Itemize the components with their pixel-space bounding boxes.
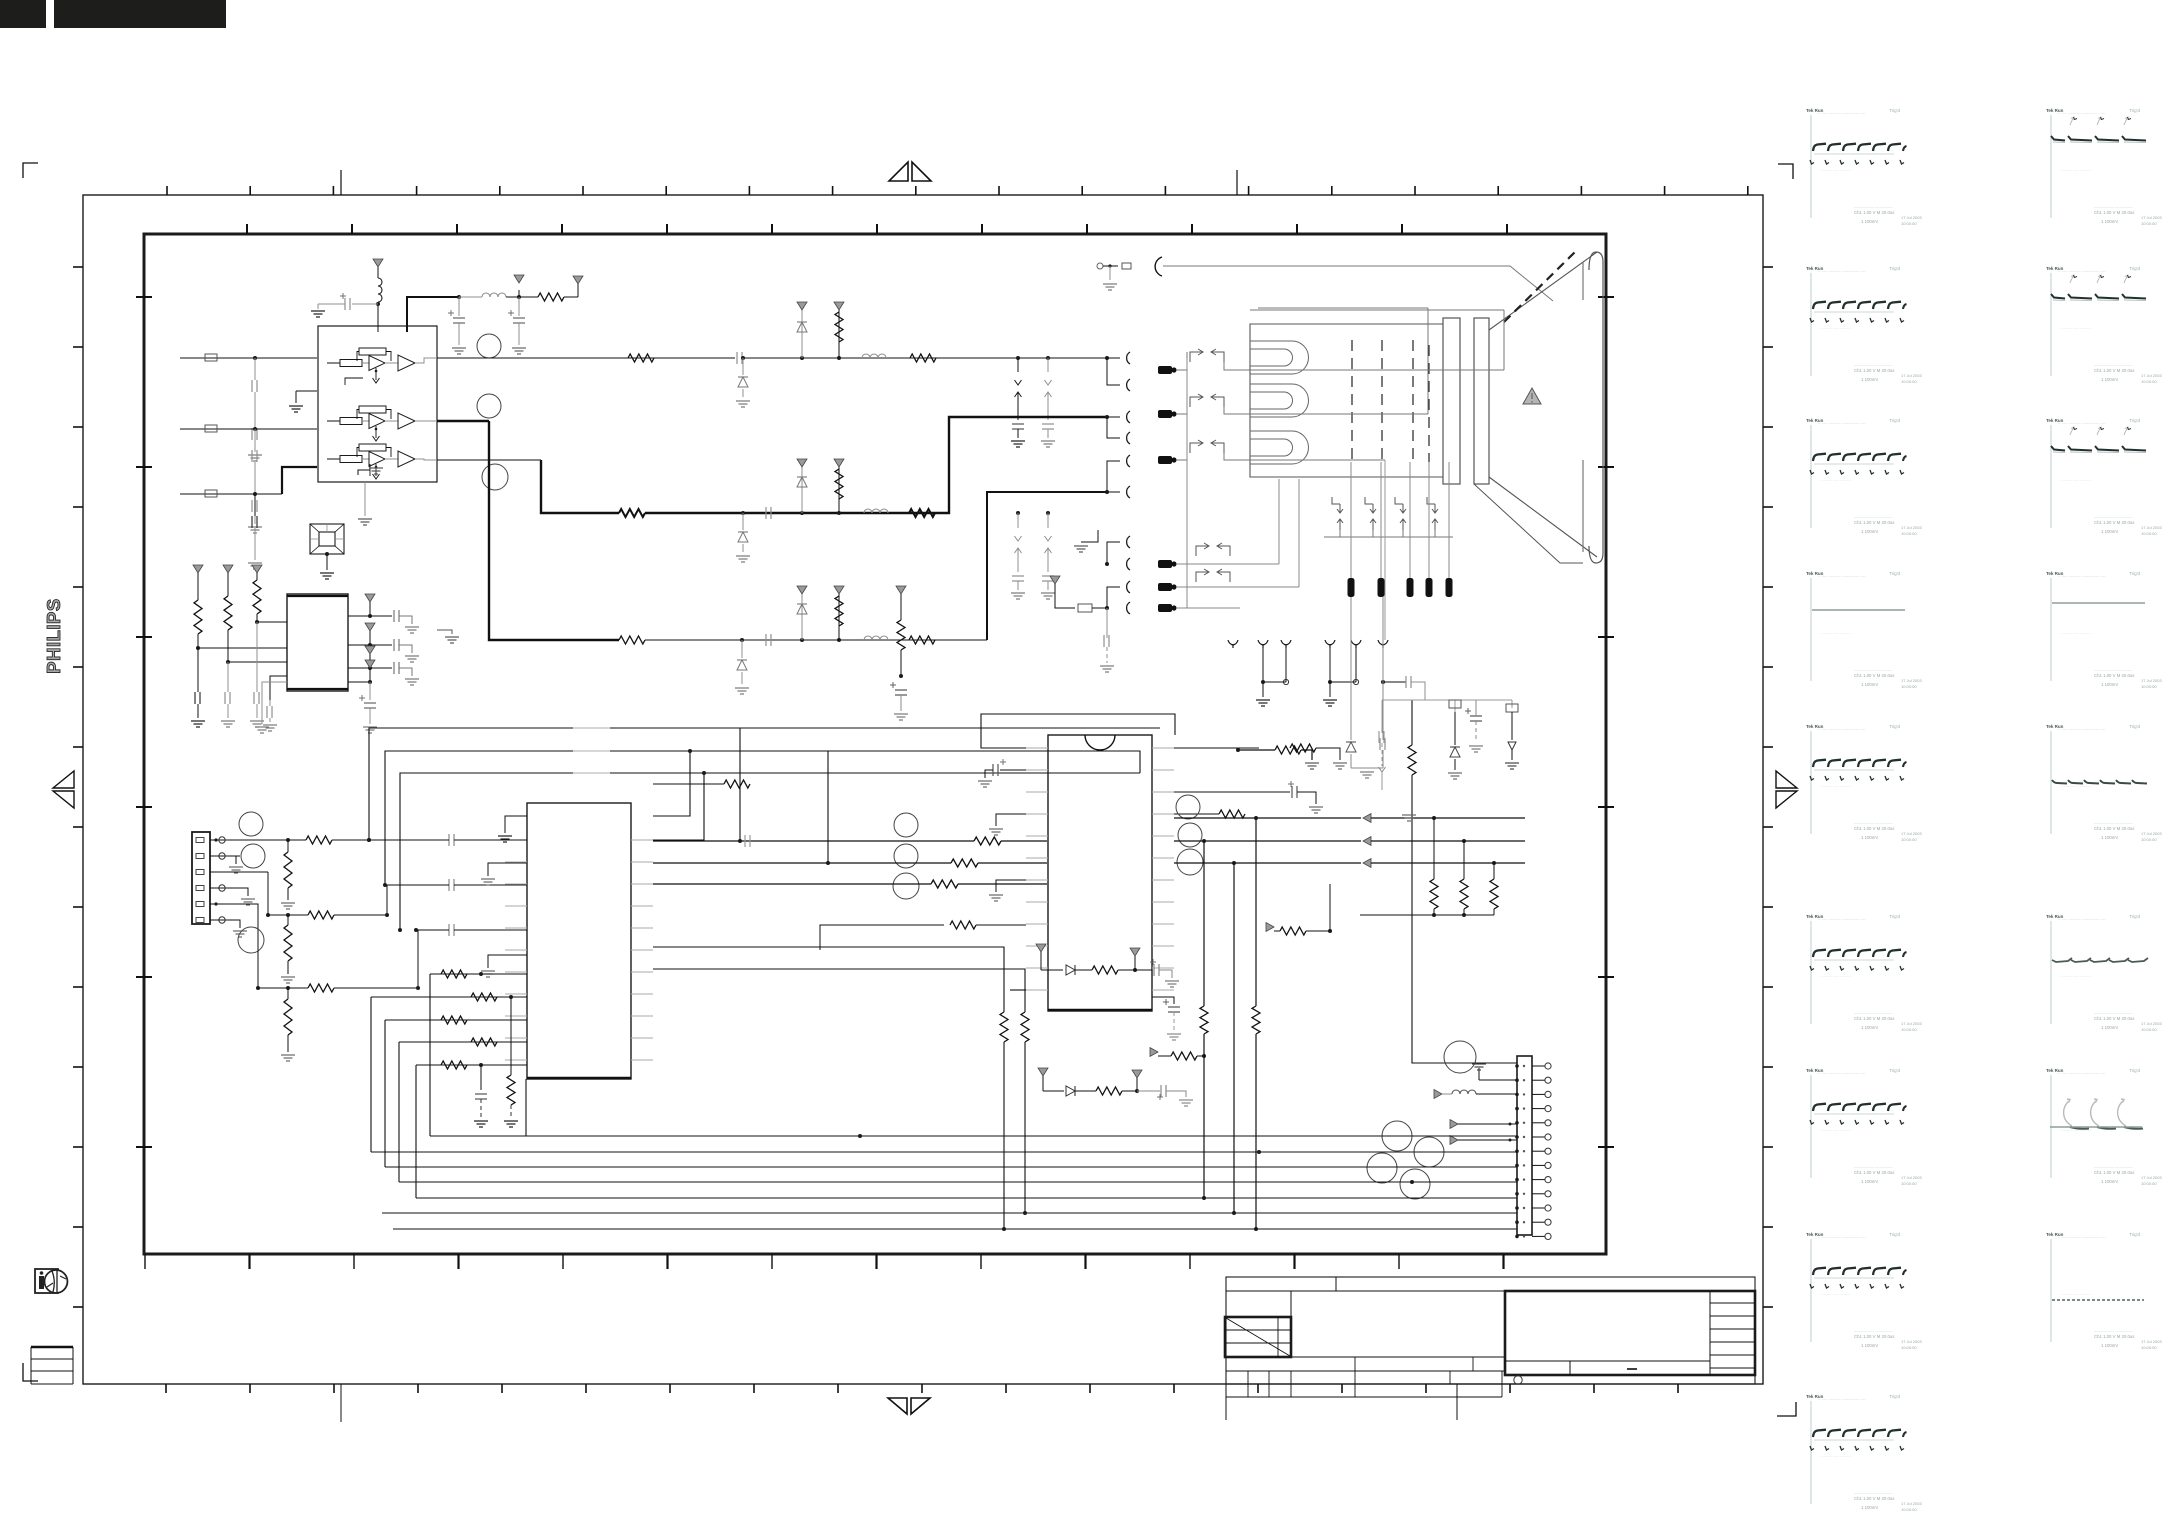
drive vertical bus [1186,358,1188,608]
wire U2 in1 [257,621,287,623]
oscillogram A1 [1806,108,1922,226]
U1 ground pin [358,470,370,475]
U2 left bottom wire [262,682,287,724]
outer frame [83,195,1763,1384]
vtri supply [518,290,520,297]
svg-text:_ ____ __ _____: _ ____ __ _____ [2059,166,2092,171]
svg-text:________ _______: ________ _______ [1853,361,1893,366]
B socket pins [1105,490,1109,494]
svg-text:17 Jul 2003: 17 Jul 2003 [2141,678,2162,683]
svg-text:________ _______: ________ _______ [1853,1009,1893,1014]
J2 tri pin 1 [1450,1120,1458,1129]
svg-text:Trig'd: Trig'd [2129,571,2140,576]
R input cap to gnd [254,358,256,380]
CRT yoke bar 1 [1443,318,1460,484]
title block row dividers [1354,1357,1356,1371]
svg-text:1 100mV: 1 100mV [1861,377,1878,382]
bus line 1 [430,1135,1517,1137]
cathode arrows G [1190,397,1202,407]
revision box [1225,1317,1291,1357]
svg-text:Ch1 1.00 V M 20.0us: Ch1 1.00 V M 20.0us [1854,520,1894,525]
U3 bottom left drop [525,1079,527,1136]
svg-text:1 100mV: 1 100mV [1861,835,1878,840]
resistor R3 [519,296,538,298]
CRT funnel bottom [1489,477,1597,557]
svg-text:Trig'd: Trig'd [1889,1394,1900,1399]
svg-text:1 100mV: 1 100mV [2101,529,2118,534]
bus line 6 [382,1212,1517,1214]
R line spark gaps [1016,356,1020,360]
heater cap [1106,608,1108,638]
cathode pad G [1158,410,1172,418]
oscillogram B4 [2046,571,2162,689]
J1 pin2 wire [210,855,240,857]
outer frame top ticks [166,186,168,195]
bus line 7 [393,1228,1517,1230]
svg-text:10:00:00: 10:00:00 [2141,1345,2157,1350]
wire U1 out top [407,297,459,332]
R term res [286,838,290,842]
R input line [180,357,317,359]
CRT grid dashed line 3 [1412,340,1414,462]
svg-text:_ __ _____ _______ __: _ __ _____ _______ __ [1817,1069,1866,1074]
svg-text:Ch1 1.00 V M 20.0us: Ch1 1.00 V M 20.0us [2094,673,2134,678]
U3-U4 wire R [653,840,974,842]
svg-text:17 Jul 2003: 17 Jul 2003 [2141,525,2162,530]
U3-U4 aux wires [653,947,1004,1012]
svg-text:_ ____ __ _____: _ ____ __ _____ [1819,1126,1852,1131]
svg-text:_ __ _____ _______ __: _ __ _____ _______ __ [2057,1233,2106,1238]
G socket pins [1105,415,1109,419]
svg-text:________ _______: ________ _______ [2093,1327,2133,1332]
inner frame left ticks [136,296,152,298]
svg-text:Trig'd: Trig'd [1889,1232,1900,1237]
CRT pad wires [1350,462,1352,578]
oscillogram B1 [2046,108,2162,226]
B input wire step [282,467,317,494]
cathode loop box [1250,309,1504,311]
svg-text:PHILIPS: PHILIPS [43,598,64,673]
IC U3 box [527,803,631,1079]
elcap column [1470,715,1482,717]
resistor pulldown [510,997,512,1075]
svg-text:_ __ _____ _______ __: _ __ _____ _______ __ [2057,419,2106,424]
op-amp stage B (G) [327,420,340,422]
bus loop 2 [385,751,1140,885]
corner mark bottom-left [23,1363,38,1381]
node junction [457,295,461,299]
U4 in circles [894,813,918,837]
coupling cap G [448,879,450,891]
G line cap [765,507,767,519]
test point circle TP2 [477,394,501,418]
snubber column [1454,712,1456,745]
svg-text:1 100mV: 1 100mV [2101,1025,2118,1030]
svg-text:Trig'd: Trig'd [1889,108,1900,113]
svg-text:________ _______: ________ _______ [1853,1163,1893,1168]
U3 right wire up [653,751,690,816]
svg-text:Ch1 1.00 V M 20.0us: Ch1 1.00 V M 20.0us [2094,210,2134,215]
CRT screen inner top [1582,262,1584,300]
oscillogram B2 [2046,266,2162,384]
CRT anode clip [1097,263,1103,269]
registration arrows right middle [1776,771,1797,788]
B line res up [837,638,841,642]
svg-text:________ _______: ________ _______ [2093,513,2133,518]
svg-text:Trig'd: Trig'd [1889,724,1900,729]
svg-text:_ ____ __ _____: _ ____ __ _____ [1819,629,1852,634]
svg-text:1 100mV: 1 100mV [2101,1343,2118,1348]
svg-text:Trig'd: Trig'd [1889,266,1900,271]
title block left divider [1290,1291,1292,1357]
electrolytic at U4 out [1152,997,1174,1004]
svg-text:17 Jul 2003: 17 Jul 2003 [1901,1175,1922,1180]
svg-text:_ __ _____ _______ __: _ __ _____ _______ __ [2057,725,2106,730]
svg-text:Trig'd: Trig'd [1889,1068,1900,1073]
drive pad 1 [1158,560,1172,568]
cathode wire R [1186,352,1188,370]
snubber column 2 [1506,704,1518,712]
U3-U4 wire G [653,862,951,864]
U4 gnd elbow 2 [996,880,1026,892]
svg-text:_ __ _____ _______ __: _ __ _____ _______ __ [1817,419,1866,424]
registration arrows top center [889,162,908,181]
drawing number box right column [1709,1291,1711,1375]
svg-text:_ ____ __ _____: _ ____ __ _____ [2059,476,2092,481]
B line diode column [740,638,744,642]
connector J2 pins [1515,1064,1519,1068]
svg-text:17 Jul 2003: 17 Jul 2003 [1901,1339,1922,1344]
title block bottom rows [1247,1371,1249,1384]
cathode arrows B [1190,443,1202,453]
bus line 2 [371,1151,1517,1153]
resistor row 5 to U3 [416,1064,527,1066]
connector J2 body [1517,1056,1532,1235]
svg-text:10:00:00: 10:00:00 [2141,221,2157,226]
U1 supply junction [376,302,380,306]
op-amp stage A (R) [327,362,340,364]
svg-text:_ ____ __ _____: _ ____ __ _____ [1819,1452,1852,1457]
connector J1 pins [196,838,204,843]
svg-text:10:00:00: 10:00:00 [1901,379,1917,384]
U4 wrap loop [981,714,1175,748]
svg-text:17 Jul 2003: 17 Jul 2003 [2141,1021,2162,1026]
svg-text:Ch1 1.00 V M 20.0us: Ch1 1.00 V M 20.0us [2094,520,2134,525]
svg-text:_ __ _____ _______ __: _ __ _____ _______ __ [2057,572,2106,577]
sync gnd bus [1360,914,1494,916]
svg-text:17 Jul 2003: 17 Jul 2003 [1901,1021,1922,1026]
svg-text:_ ____ __ _____: _ ____ __ _____ [2059,972,2092,977]
R in resistor [240,839,306,841]
svg-text:10:00:00: 10:00:00 [1901,1027,1917,1032]
capacitor C13 [269,700,271,706]
svg-text:_ __ _____ _______ __: _ __ _____ _______ __ [1817,1395,1866,1400]
resistor row 1 to U3 [430,973,527,975]
svg-text:Ch1 1.00 V M 20.0us: Ch1 1.00 V M 20.0us [2094,826,2134,831]
capacitor C3 electrolytic [518,297,520,316]
svg-text:1 100mV: 1 100mV [2101,1179,2118,1184]
cathode pad B [1158,456,1172,464]
svg-text:________ _______: ________ _______ [1853,513,1893,518]
oscillogram B3 [2046,418,2162,536]
svg-text:Trig'd: Trig'd [1889,418,1900,423]
U2 pin net 3 [348,667,370,669]
capacitor C11 [227,662,229,692]
svg-text:17 Jul 2003: 17 Jul 2003 [2141,1175,2162,1180]
svg-text:10:00:00: 10:00:00 [1901,1181,1917,1186]
corner mark top-right [1778,164,1793,179]
svg-text:17 Jul 2003: 17 Jul 2003 [2141,1339,2162,1344]
svg-text:Ch1 1.00 V M 20.0us: Ch1 1.00 V M 20.0us [2094,1334,2134,1339]
svg-text:_ ____ __ _____: _ ____ __ _____ [2059,1290,2092,1295]
inner frame [144,234,1606,1254]
bus loop 3 [400,773,1140,930]
U2 pin net 2 [348,644,370,646]
svg-text:Ch1 1.00 V M 20.0us: Ch1 1.00 V M 20.0us [1854,1170,1894,1175]
sync row 3 [1174,862,1361,864]
CRT grid arrows [1332,497,1340,504]
G line res up [837,511,841,515]
U4 res row [820,925,944,950]
screen grid resistor [1238,749,1275,751]
oscillogram A2 [1806,266,1922,384]
oscillogram A9 [1806,1394,1922,1512]
heater forks [1228,640,1238,648]
svg-text:17 Jul 2003: 17 Jul 2003 [1901,215,1922,220]
U1 supply vtri [373,259,383,267]
wire U2 in2 [228,661,287,663]
pullup resistor column C [1255,818,1257,1006]
header bar left [0,0,46,28]
op-amp stage C (B) [327,458,340,460]
J2 test circle [1444,1041,1476,1073]
flyback res column [1408,700,1410,812]
CRT grid dashed line 4 [1428,345,1430,462]
CRT funnel top [1489,252,1597,330]
J1 pin1 wire [210,839,240,841]
svg-text:10:00:00: 10:00:00 [1901,837,1917,842]
U2 pin net 1 [348,615,370,617]
svg-text:10:00:00: 10:00:00 [2141,531,2157,536]
corner mark top-left [23,163,38,178]
svg-text:Trig'd: Trig'd [2129,108,2140,113]
header bar right [54,0,226,28]
CRT anode wire [1163,266,1553,301]
IQ quality logo [35,1269,58,1293]
cathode pad R [1158,366,1172,374]
G2 spark gaps [1016,511,1020,515]
bus line 4 [399,1181,1517,1183]
inner frame bottom ticks [144,1254,146,1269]
outer frame left ticks [73,266,83,268]
oscillogram A7 [1806,1068,1922,1186]
svg-text:________ _______: ________ _______ [1853,1489,1893,1494]
svg-text:10:00:00: 10:00:00 [1901,1507,1917,1512]
bus line 3 [385,1166,1517,1168]
G line diode column [741,511,745,515]
svg-text:Trig'd: Trig'd [2129,266,2140,271]
svg-text:_ ____ __ _____: _ ____ __ _____ [1819,476,1852,481]
cathode arrows R [1190,352,1202,362]
svg-text:17 Jul 2003: 17 Jul 2003 [2141,215,2162,220]
svg-text:1 100mV: 1 100mV [1861,1343,1878,1348]
svg-text:Trig'd: Trig'd [1889,571,1900,576]
svg-text:17 Jul 2003: 17 Jul 2003 [2141,373,2162,378]
svg-text:_ __ _____ _______ __: _ __ _____ _______ __ [2057,267,2106,272]
U4 right bus 1 [1174,747,1259,749]
sync row 1 [1174,817,1361,819]
svg-text:_ __ _____ _______ __: _ __ _____ _______ __ [1817,725,1866,730]
wire to inductor [459,296,482,298]
resistor row 3 to U3 [385,1019,527,1021]
svg-text:Ch1 1.00 V M 20.0us: Ch1 1.00 V M 20.0us [1854,210,1894,215]
U4 in R [974,837,1001,845]
svg-text:1 100mV: 1 100mV [2101,682,2118,687]
oscillogram B6 [2046,914,2162,1032]
svg-text:10:00:00: 10:00:00 [2141,684,2157,689]
U4 right pin stubs [1152,747,1174,749]
inductor L2 [482,293,506,297]
J2 inductor pin [1434,1090,1442,1099]
drive pad 2 [1158,583,1172,591]
svg-text:Trig'd: Trig'd [1889,914,1900,919]
title block header line [1226,1290,1755,1292]
svg-text:17 Jul 2003: 17 Jul 2003 [1901,831,1922,836]
J1 pin5 wire [210,904,258,941]
svg-text:17 Jul 2003: 17 Jul 2003 [1901,525,1922,530]
svg-text:1 100mV: 1 100mV [2101,835,2118,840]
CRT anode dashed lead [1504,250,1577,322]
svg-text:________ _______: ________ _______ [1853,203,1893,208]
svg-text:1 100mV: 1 100mV [2101,377,2118,382]
registration arrows bottom center [888,1398,907,1414]
R video line [437,357,735,359]
R line resistor column [837,356,841,360]
inner frame top ticks [246,224,248,234]
svg-text:________ _______: ________ _______ [2093,666,2133,671]
svg-text:1 100mV: 1 100mV [1861,219,1878,224]
title block mid hline [1226,1356,1505,1358]
svg-text:Ch1 1.00 V M 20.0us: Ch1 1.00 V M 20.0us [1854,1016,1894,1021]
resistor R12 vertical [252,565,262,573]
svg-text:_ ____ __ _____: _ ____ __ _____ [1819,1290,1852,1295]
sync pull res 2 [1463,840,1465,879]
U4 right wire 4 [1174,835,1219,837]
svg-text:_ ____ __ _____: _ ____ __ _____ [1819,166,1852,171]
oscillogram B7 [2046,1068,2162,1186]
svg-text:_ ____ __ _____: _ ____ __ _____ [1819,782,1852,787]
J2 tri pin 2 [1450,1136,1458,1145]
svg-text:________ _______: ________ _______ [2093,203,2133,208]
inner frame right ticks [1598,296,1614,298]
svg-text:17 Jul 2003: 17 Jul 2003 [1901,678,1922,683]
cathode wire G [1186,407,1188,414]
diode chain [1038,1068,1048,1076]
focus socket pins [1081,530,1098,542]
J1 pin3 wire [210,871,268,873]
bus loop 1 [369,728,1160,840]
wire U2 in3 [270,676,287,700]
resistor R10 vertical [193,565,203,573]
U4 right diode row 1 [1174,857,1360,859]
U4 right bus 2 [1174,813,1219,815]
capacitor C2 electrolytic [458,297,460,316]
CRT gun coil 3 [1250,431,1309,464]
svg-text:_ __ _____ _______ __: _ __ _____ _______ __ [2057,1069,2106,1074]
G input line [180,428,317,430]
drive arrows 1 [1196,546,1208,556]
svg-text:________ _______: ________ _______ [2093,361,2133,366]
test point circle TP1 [477,334,501,358]
svg-text:1 100mV: 1 100mV [1861,529,1878,534]
J1 pin4 wire [210,887,240,889]
svg-text:17 Jul 2003: 17 Jul 2003 [2141,831,2162,836]
svg-text:1 100mV: 1 100mV [1861,1025,1878,1030]
sync pull res 1 [1433,817,1435,879]
U4 right wire 3 [1174,791,1256,793]
R line below diode [741,356,745,360]
U4 right cap row [1174,791,1290,793]
drawing number box bottom row [1505,1360,1710,1362]
drive arrows 2 [1196,572,1208,582]
svg-text:Ch1 1.00 V M 20.0us: Ch1 1.00 V M 20.0us [2094,1016,2134,1021]
node junction [517,295,521,299]
svg-text:1 100mV: 1 100mV [1861,1179,1878,1184]
svg-text:_ __ _____ _______ __: _ __ _____ _______ __ [1817,109,1866,114]
vdrive arrow resistor [1266,923,1274,932]
svg-text:_ ____ __ _____: _ ____ __ _____ [2059,324,2092,329]
svg-text:_ __ _____ _______ __: _ __ _____ _______ __ [1817,267,1866,272]
B video line [489,421,619,640]
U4 right wire row [1174,879,1456,881]
svg-text:Trig'd: Trig'd [2129,724,2140,729]
G line diode up [800,511,804,515]
svg-text:Trig'd: Trig'd [2129,1068,2140,1073]
svg-text:________ _______: ________ _______ [1853,666,1893,671]
vtri supply [577,284,579,297]
svg-text:Trig'd: Trig'd [2129,1232,2140,1237]
resistor row 4 to U3 [399,1041,527,1043]
svg-text:_ __ _____ _______ __: _ __ _____ _______ __ [2057,915,2106,920]
R line diode column [800,356,804,360]
U4 cap left [1000,769,1026,771]
U1 internal bias step [296,390,317,392]
svg-text:Ch1 1.00 V M 20.0us: Ch1 1.00 V M 20.0us [2094,1170,2134,1175]
revision table bottom-left [31,1346,73,1349]
U4 in B [931,880,958,888]
IC U2 box [287,594,348,691]
sync row 2 [1174,840,1361,842]
svg-text:Ch1 1.00 V M 20.0us: Ch1 1.00 V M 20.0us [1854,826,1894,831]
svg-text:_ __ _____ _______ __: _ __ _____ _______ __ [1817,1233,1866,1238]
title block circle [1514,1376,1522,1384]
coupling cap B [448,924,450,936]
CRT grid dashed line 1 [1351,340,1353,462]
svg-text:Ch1 1.00 V M 20.0us: Ch1 1.00 V M 20.0us [1854,1496,1894,1501]
CRT grid bus [1324,536,1453,538]
svg-text:_ __ _____ _______ __: _ __ _____ _______ __ [1817,572,1866,577]
coupling cap R [448,834,450,846]
ground stub left of B elbow [437,630,452,634]
title block outline [1226,1277,1755,1384]
svg-text:1 100mV: 1 100mV [1861,1505,1878,1510]
R socket pins [1105,356,1109,360]
svg-text:_ ____ __ _____: _ ____ __ _____ [1819,324,1852,329]
vdrive resistor net [896,586,906,594]
U4 left pin stubs [1026,747,1048,749]
J2 gnd pin [1478,1068,1480,1080]
svg-text:_ __ _____ _______ __: _ __ _____ _______ __ [1817,915,1866,920]
